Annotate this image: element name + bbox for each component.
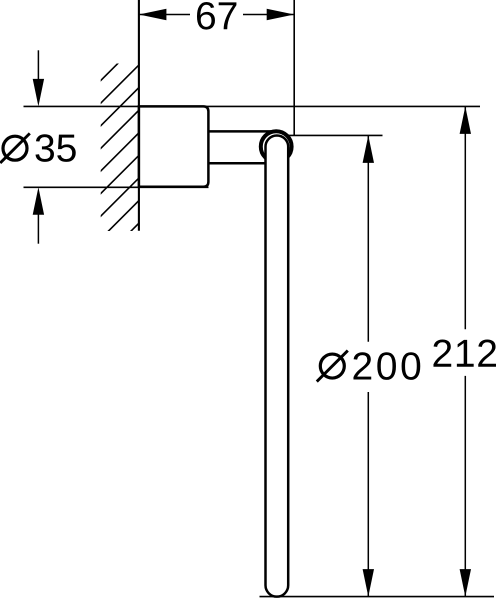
wall line + left extension of 67 [138,0,140,231]
ball joint [261,131,292,162]
label 200 [353,352,420,380]
label diameter symbol (200) [320,354,344,378]
ring (side view stadium) [266,135,289,596]
label 35 [35,134,75,162]
wire bottom dim line of O35 y=187 [24,186,209,188]
arrow 67 left [139,9,167,20]
arrow 67 right [267,9,295,20]
O200 bottom arrow (down) [363,569,374,597]
label 67 [197,2,236,30]
212 bottom arrow (down) [460,569,471,597]
212 top arrow (up) [460,106,471,133]
arm bottom line [208,162,278,165]
rosette (wall mount) [139,106,209,186]
dim line 67 [139,14,190,16]
wire bottom extension line y=596.6 [260,596,495,598]
O200 top arrow (up) [363,135,374,163]
O35 bottom arrow (up) [37,212,39,244]
O200 dim line [367,135,369,341]
wire O200 top extension line [288,134,382,136]
O35 top arrow (down) [37,50,39,82]
label diameter symbol (35) [3,136,27,160]
label 212 [433,339,496,366]
wire top horizontal extension line y=106 [24,105,481,107]
hatch [94,42,140,268]
arm top line [208,130,278,133]
212 dim line [464,106,466,329]
right extension line of 67 [293,0,295,135]
